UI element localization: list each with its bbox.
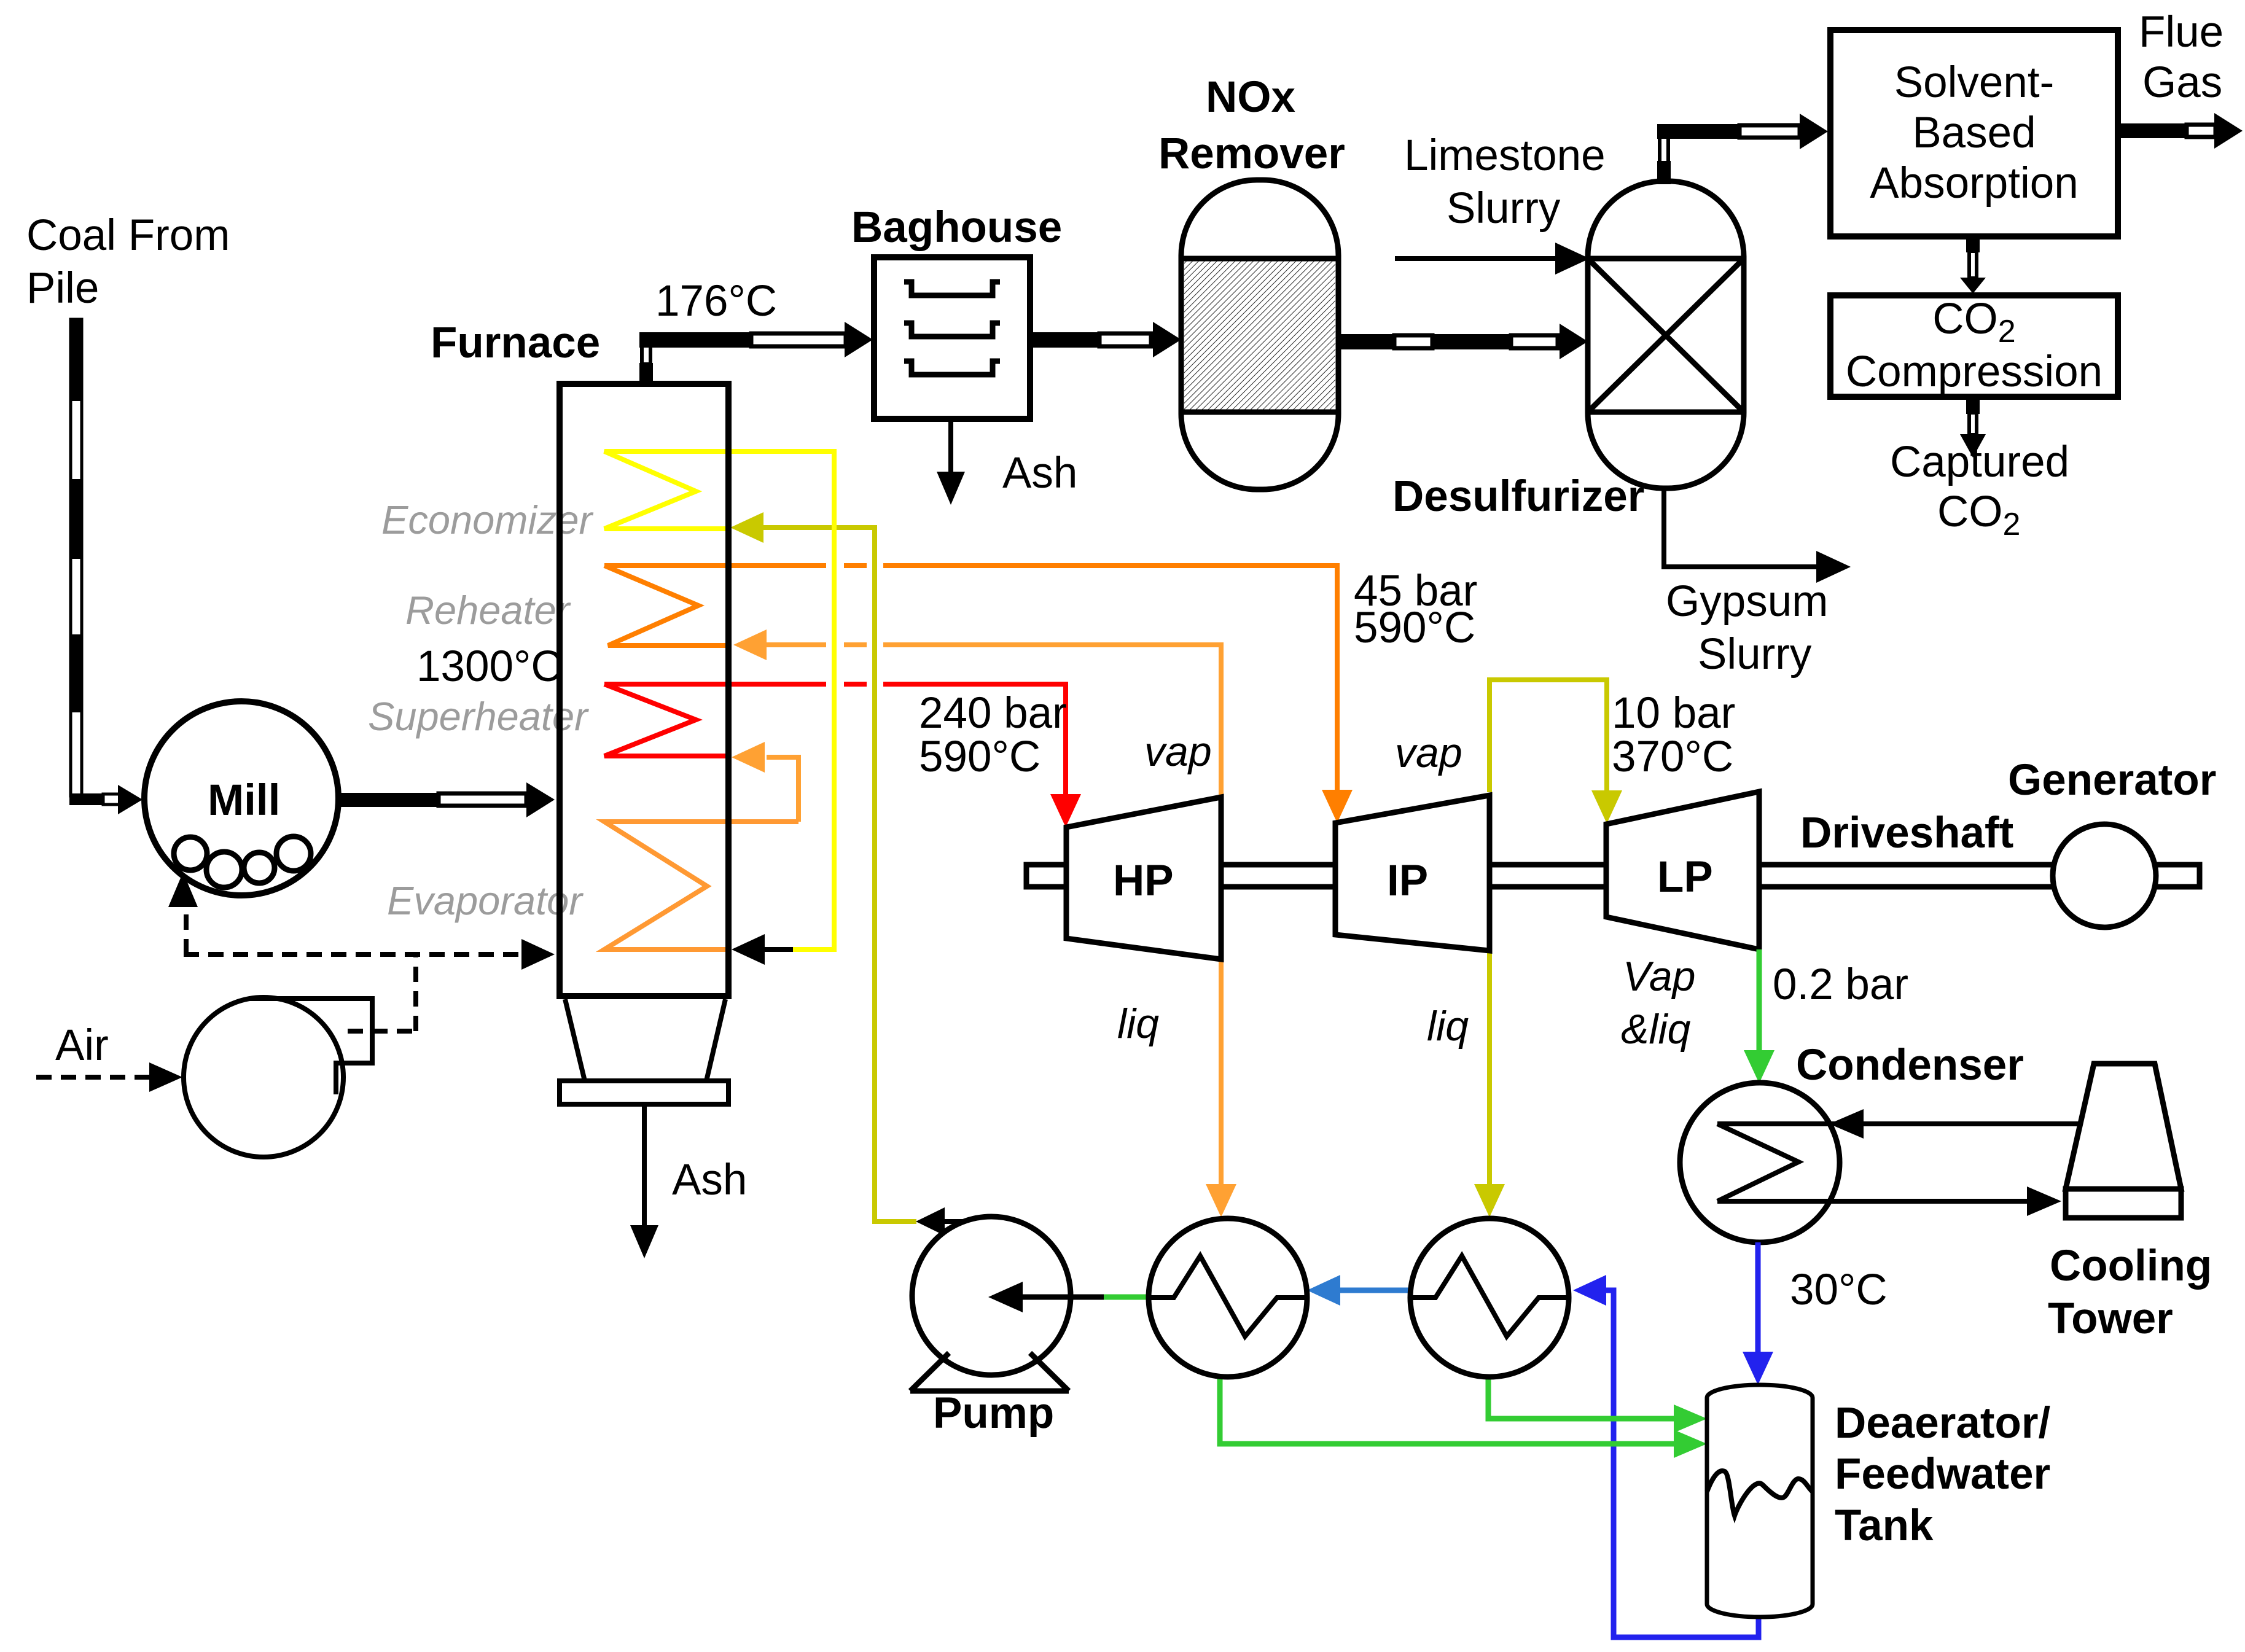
wire orange 45bar line reheater to IP (dashed over verticals) (604, 563, 1337, 792)
svg-text:Feedwater: Feedwater (1835, 1450, 2050, 1498)
svg-text:liq: liq (1117, 1000, 1159, 1047)
svg-text:240 bar: 240 bar (919, 689, 1067, 738)
wire limestone slurry arrow (1395, 256, 1556, 261)
svg-text:Captured: Captured (1890, 438, 2069, 486)
wire light orange arrowhead into feedwater heater 1 top (1206, 1184, 1236, 1217)
svg-text:Pile: Pile (26, 264, 99, 313)
mill ball 3 (244, 852, 275, 883)
duct CO2 compression to captured CO2 (1966, 397, 1980, 414)
coil evaporator light orange (604, 822, 798, 949)
svg-text:Condenser: Condenser (1796, 1041, 2024, 1089)
driveshaft LP to generator (1759, 865, 2055, 887)
desulfurizer vessel (1588, 181, 1744, 488)
wire yellow economizer downcomer to evaporator (791, 449, 834, 949)
svg-text:Coal From: Coal From (26, 211, 230, 260)
svg-text:1300°C: 1300°C (416, 642, 563, 691)
svg-text:Pump: Pump (933, 1389, 1054, 1438)
wire blue feedwater loop from deaerator bottom to heater 2 (1604, 1290, 1759, 1637)
wire coal arrowhead into mill (118, 785, 143, 814)
svg-text:Based: Based (1912, 109, 2036, 157)
turbine LP (1606, 792, 1759, 949)
wire baghouse ash line (948, 419, 953, 476)
wire green drain heater2 to deaerator (1488, 1377, 1675, 1419)
feedwater heater 1 coil (1149, 1256, 1307, 1336)
svg-text:Reheater: Reheater (405, 588, 571, 633)
svg-text:Limestone: Limestone (1404, 131, 1606, 180)
mill ball 4 (276, 836, 311, 871)
baghouse bag 2 (904, 323, 1000, 337)
wire furnace ash arrowhead (630, 1225, 658, 1258)
mill circle (144, 701, 338, 895)
wire cooling water to tower (1717, 1199, 2028, 1204)
furnace top (556, 381, 732, 387)
furnace hopper right slant (706, 999, 725, 1081)
wire olive feedwater downcomer from pump discharge (875, 525, 916, 1221)
svg-text:30°C: 30°C (1790, 1266, 1888, 1314)
svg-text:Vap: Vap (1623, 953, 1695, 1000)
svg-text:vap: vap (1395, 730, 1462, 776)
wire green arrowhead into condenser (1744, 1050, 1775, 1083)
furnace bottom (556, 993, 732, 999)
duct mill to furnace solid bar (337, 793, 439, 807)
furnace left wall (556, 381, 563, 996)
cooling tower (2066, 1064, 2181, 1189)
wire olive IP extraction down to feedwater heater 2 (1487, 795, 1492, 1185)
wire air dashed inlet (36, 1075, 150, 1080)
wire black segment and arrowhead into pump (1021, 1295, 1104, 1300)
wire blue arrowhead into deaerator top (1743, 1352, 1773, 1385)
svg-text:Gas: Gas (2142, 58, 2222, 107)
svg-text:Solvent-: Solvent- (1894, 58, 2054, 107)
svg-text:Slurry: Slurry (1698, 630, 1812, 679)
solvent-based absorption box (1830, 30, 2118, 236)
baghouse bag 1 (904, 282, 1000, 295)
svg-text:Compression: Compression (1846, 348, 2102, 396)
deaerator water level squiggle (1707, 1471, 1813, 1516)
duct desulfurizer to solvent absorber (1657, 124, 1739, 139)
duct solvent box to flue gas (2118, 123, 2187, 138)
wire light orange evaporator to superheater loop (767, 757, 798, 822)
duct furnace to baghouse solid bar (639, 332, 751, 348)
svg-text:Generator: Generator (2008, 756, 2216, 805)
svg-text:Ash: Ash (1002, 449, 1077, 497)
fan blower (184, 997, 343, 1157)
duct desulfurizer top stub (1660, 136, 1668, 163)
wire light orange arrowhead into superheater bottom (732, 742, 765, 773)
svg-text:Mill: Mill (208, 776, 280, 825)
svg-text:590°C: 590°C (919, 733, 1041, 781)
duct mill to furnace hollow shaft (439, 793, 526, 806)
svg-text:Gypsum: Gypsum (1666, 577, 1828, 626)
feedwater heater 2 coil (1410, 1256, 1569, 1336)
shaft stub right of generator (2155, 865, 2200, 887)
svg-text:10 bar: 10 bar (1612, 689, 1735, 738)
wire coal conveyor elbow to mill (69, 793, 103, 805)
wire red arrowhead into HP turbine (1050, 794, 1081, 827)
wire red 240bar superheater line to HP (604, 682, 1066, 795)
wire baghouse ash arrowhead (937, 472, 965, 505)
wire air arrowhead into furnace (521, 939, 555, 970)
svg-text:Air: Air (55, 1021, 109, 1070)
duct NOx remover to desulfurizer (1337, 334, 1394, 349)
wire blue condensate condenser to deaerator (1755, 1242, 1761, 1355)
coil superheater red (604, 684, 730, 756)
baghouse bag 3 (904, 361, 1000, 375)
wire green drain heater1 to deaerator (1220, 1377, 1675, 1444)
wire olive arrowhead into LP turbine (1591, 790, 1622, 824)
shaft HP to IP (1221, 865, 1335, 887)
NOx remover vessel (1181, 180, 1338, 489)
svg-text:Tank: Tank (1835, 1502, 1934, 1550)
svg-text:IP: IP (1387, 857, 1428, 905)
coil reheater dark orange (604, 566, 730, 645)
svg-text:HP: HP (1113, 857, 1174, 905)
baghouse box (874, 257, 1030, 419)
coil economizer yellow (604, 451, 834, 529)
svg-text:0.2 bar: 0.2 bar (1773, 960, 1908, 1009)
wire black pump discharge line and arrowhead onto olive line (943, 1219, 1012, 1224)
svg-text:Superheater: Superheater (368, 694, 589, 739)
svg-text:370°C: 370°C (1612, 733, 1733, 781)
furnace hopper left slant (565, 999, 585, 1081)
wire cooling water return arrowhead at condenser (1829, 1109, 1864, 1139)
svg-text:Baghouse: Baghouse (851, 203, 1062, 252)
svg-text:Absorption: Absorption (1870, 159, 2078, 208)
svg-text:Tower: Tower (2048, 1295, 2173, 1343)
pump circle (912, 1217, 1071, 1375)
wire olive arrowhead into feedwater heater 2 top (1474, 1184, 1505, 1217)
deaerator feedwater tank (1707, 1385, 1813, 1617)
desulfurizer packing band with X (1588, 256, 1744, 262)
wire furnace ash line (642, 1104, 647, 1228)
mill ball 1 (174, 837, 207, 870)
svg-text:Ash: Ash (672, 1156, 747, 1204)
pump base (910, 1353, 1069, 1391)
wire olive arrowhead into economizer bottom (730, 512, 763, 543)
wire dodger blue arrowhead into heater 1 right (1307, 1275, 1340, 1306)
wire light orange HP exhaust to reheater bottom (767, 642, 1221, 1185)
CO2 compression box (1830, 295, 2118, 397)
turbine IP (1335, 795, 1490, 951)
wire fan outlet dashed (348, 1029, 416, 1034)
duct furnace chimney stub (642, 346, 650, 364)
svg-text:Remover: Remover (1158, 130, 1345, 178)
wire green heater1 outlet to pump (1103, 1295, 1149, 1300)
feedwater heater 2 circle (1410, 1218, 1569, 1377)
duct baghouse to NOx remover (1030, 332, 1099, 348)
furnace right wall (725, 381, 732, 996)
wire black segment and arrowhead into evaporator bottom (765, 947, 793, 952)
svg-text:Furnace: Furnace (431, 319, 600, 367)
svg-text:590°C: 590°C (1354, 604, 1475, 652)
svg-text:Flue: Flue (2139, 8, 2224, 56)
wire olive feedwater arrow shaft into economizer (760, 525, 875, 530)
furnace base plate (560, 1081, 728, 1104)
svg-text:Driveshaft: Driveshaft (1800, 809, 2013, 857)
duct solvent box to CO2 compression (1966, 236, 1980, 252)
condenser coil and cooling water return line (1717, 1121, 2081, 1126)
wire air dashed riser to mill (184, 905, 189, 954)
wire air arrowhead into fan (149, 1062, 182, 1092)
wire gypsum slurry outlet (1664, 487, 1817, 567)
condenser circle (1680, 1083, 1840, 1242)
svg-text:&liq: &liq (1621, 1006, 1691, 1053)
duct mill to furnace arrowhead (526, 782, 555, 817)
svg-text:NOx: NOx (1206, 73, 1295, 122)
wire primary air dashed to furnace (184, 952, 519, 957)
feedwater heater 1 circle (1149, 1218, 1307, 1377)
svg-text:Cooling: Cooling (2050, 1242, 2212, 1290)
shaft stub left of HP (1026, 865, 1066, 887)
wire green LP exhaust to condenser (1757, 949, 1762, 1053)
svg-text:Desulfurizer: Desulfurizer (1392, 472, 1644, 521)
wire light orange arrowhead into reheater bottom (733, 629, 767, 660)
duct furnace to baghouse hollow shaft (751, 333, 846, 346)
wire coal conveyor from pile (outlined with black dashes) (71, 319, 82, 796)
wire blue arrowhead into feedwater heater 2 right (1573, 1275, 1606, 1306)
shaft IP to LP (1490, 865, 1606, 887)
duct furnace to baghouse arrowhead (845, 322, 873, 357)
mill ball 2 (206, 852, 242, 887)
svg-text:vap: vap (1144, 728, 1212, 775)
generator circle (2053, 824, 2156, 927)
wire orange arrowhead into IP turbine (1322, 790, 1353, 823)
svg-text:liq: liq (1427, 1003, 1469, 1050)
wire air arrowhead into mill bottom (168, 872, 198, 907)
NOx remover catalyst bed hatched (1184, 259, 1335, 412)
svg-text:Evaporator: Evaporator (387, 878, 584, 923)
turbine HP (1066, 797, 1221, 959)
svg-text:176°C: 176°C (655, 277, 777, 325)
wire olive IP exhaust riser and crossover to LP (1490, 680, 1607, 792)
svg-text:LP: LP (1657, 853, 1713, 902)
svg-text:Deaerator/: Deaerator/ (1835, 1399, 2050, 1447)
wire dodger blue heater2 to heater1 (1340, 1288, 1410, 1293)
svg-text:Slurry: Slurry (1447, 184, 1561, 233)
wire black arrowhead into pump from feedwater heater 1 (1021, 1295, 1104, 1300)
